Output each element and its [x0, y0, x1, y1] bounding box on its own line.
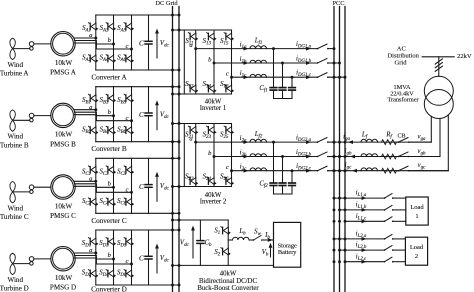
svg-text:Transformer: Transformer [387, 97, 419, 104]
svg-text:Converter B: Converter B [91, 145, 127, 153]
svg-text:10kW: 10kW [55, 131, 73, 139]
svg-text:10kW: 10kW [55, 274, 73, 282]
svg-text:Wind: Wind [8, 61, 24, 69]
svg-text:Wind: Wind [8, 276, 24, 284]
svg-text:Turbine D: Turbine D [0, 285, 29, 292]
svg-text:C: C [139, 40, 144, 48]
svg-text:10kW: 10kW [55, 202, 73, 210]
svg-text:1: 1 [415, 213, 418, 220]
svg-text:C: C [139, 183, 144, 191]
svg-text:Inverter 1: Inverter 1 [200, 105, 227, 112]
svg-text:2: 2 [415, 253, 418, 260]
svg-text:Converter D: Converter D [91, 286, 127, 292]
svg-text:PMSG B: PMSG B [50, 140, 76, 148]
svg-text:Bidirectional DC/DC: Bidirectional DC/DC [199, 278, 257, 285]
svg-text:Buck-Boost Converter: Buck-Boost Converter [197, 285, 259, 292]
svg-text:PMSG D: PMSG D [50, 284, 76, 292]
svg-text:Battery: Battery [278, 249, 297, 256]
svg-text:CB: CB [397, 134, 405, 140]
svg-text:22kV: 22kV [457, 53, 472, 60]
svg-text:Turbine B: Turbine B [0, 141, 29, 149]
svg-text:PMSG C: PMSG C [50, 212, 76, 220]
svg-text:PMSG A: PMSG A [50, 69, 77, 77]
svg-text:Wind: Wind [8, 133, 24, 141]
svg-text:c: c [226, 71, 229, 78]
svg-text:C: C [139, 111, 144, 119]
svg-text:Grid: Grid [395, 59, 408, 66]
svg-text:10kW: 10kW [55, 59, 73, 67]
svg-text:DC Grid: DC Grid [155, 0, 178, 7]
svg-text:40kW: 40kW [220, 270, 237, 277]
svg-text:Converter A: Converter A [91, 74, 127, 82]
svg-text:PCC: PCC [332, 0, 344, 7]
svg-text:Wind: Wind [8, 204, 24, 212]
svg-text:Inverter 2: Inverter 2 [200, 199, 227, 206]
svg-text:Load: Load [410, 204, 424, 211]
svg-text:Turbine A: Turbine A [0, 70, 29, 78]
svg-text:Load: Load [410, 244, 424, 251]
svg-text:Converter C: Converter C [91, 217, 127, 225]
svg-text:c: c [226, 164, 229, 171]
svg-text:Turbine C: Turbine C [0, 213, 29, 221]
svg-text:C: C [139, 255, 144, 263]
